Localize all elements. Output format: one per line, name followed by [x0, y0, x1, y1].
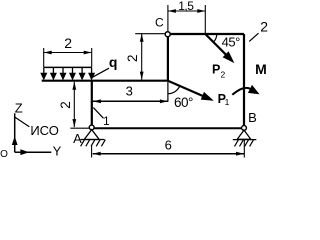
q leader line	[91, 68, 110, 78]
svg-text:60°: 60°	[174, 95, 193, 110]
force P2	[205, 34, 226, 55]
dimension 1,5 (top)	[168, 5, 205, 33]
svg-text:1: 1	[103, 114, 110, 128]
svg-text:2: 2	[221, 69, 226, 79]
wire: left column A	[91, 81, 93, 128]
moment M arc	[232, 88, 250, 95]
support A hatching	[81, 140, 106, 147]
svg-text:P: P	[212, 63, 220, 77]
support B hatching	[235, 140, 254, 147]
svg-text:2: 2	[125, 54, 140, 62]
body label 2 leader	[249, 33, 258, 41]
dimension 2 (top-left)	[44, 48, 92, 67]
svg-text:6: 6	[165, 138, 172, 153]
pin B circle	[242, 126, 247, 131]
pin A circle	[89, 125, 94, 130]
svg-text:O: O	[0, 149, 8, 158]
wire: bottom beam A to B	[92, 127, 244, 129]
svg-text:B: B	[248, 110, 257, 125]
svg-text:M: M	[255, 61, 267, 77]
wire: right column to B	[243, 34, 245, 128]
support B ground line	[233, 139, 256, 141]
svg-text:1,5: 1,5	[178, 0, 194, 13]
wire: bottom extension left of A	[70, 127, 91, 129]
axis Z	[14, 113, 16, 152]
wire: column below C	[167, 34, 169, 80]
svg-text:3: 3	[126, 83, 133, 98]
svg-text:Z: Z	[15, 100, 23, 115]
dimension 3	[167, 82, 169, 102]
svg-text:A: A	[73, 131, 82, 146]
60 degree arc	[168, 86, 180, 94]
svg-text:1: 1	[225, 97, 230, 107]
svg-text:45°: 45°	[222, 34, 240, 49]
force P1	[168, 81, 204, 97]
ISO leader	[15, 117, 29, 127]
svg-text:2: 2	[58, 101, 73, 109]
dimension 2 (vertical, left column)	[73, 82, 75, 127]
wire: top beam C to corner	[168, 33, 244, 35]
distributed load arrows	[41, 68, 94, 79]
axis Y	[15, 151, 52, 153]
wire: mid horizontal beam	[42, 80, 168, 82]
svg-text:2: 2	[260, 18, 268, 34]
svg-text:Y: Y	[53, 143, 62, 158]
body label 1 leader	[93, 108, 103, 119]
dimension 6 (bottom)	[91, 146, 93, 158]
distributed load q bar	[44, 66, 92, 68]
support A ground line	[81, 139, 105, 141]
svg-text:q: q	[109, 54, 118, 70]
hinge C	[165, 32, 170, 37]
svg-text:ИСО: ИСО	[30, 123, 59, 138]
support B triangle	[237, 130, 251, 139]
svg-text:2: 2	[64, 35, 72, 51]
support A triangle	[84, 130, 99, 140]
45 degree arc	[213, 34, 216, 42]
dimension 2 (vertical, mid left of C column)	[135, 33, 165, 35]
svg-text:C: C	[155, 16, 164, 30]
